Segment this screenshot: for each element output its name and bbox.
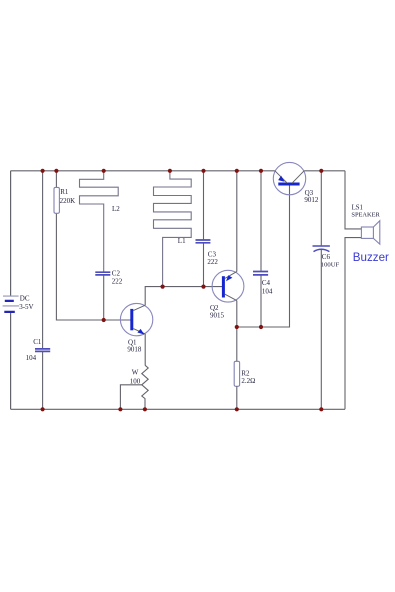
transistor Q1 emitter arrow xyxy=(137,329,144,335)
label C1 104 xyxy=(26,338,42,362)
label C3 222 xyxy=(207,251,218,266)
svg-text:C6: C6 xyxy=(322,253,331,261)
wire C3 branch xyxy=(203,171,205,287)
label Buzzer xyxy=(353,251,389,264)
svg-text:9018: 9018 xyxy=(127,345,141,353)
wire Q1 emitter down xyxy=(144,334,146,365)
potentiometer W zigzag xyxy=(142,365,148,409)
svg-text:LS1: LS1 xyxy=(352,204,363,211)
capacitor C6 xyxy=(313,246,330,252)
svg-text:C4: C4 xyxy=(262,279,271,287)
wire R1 branch and Q1 base wire xyxy=(56,171,130,320)
transistor Q3 base bar xyxy=(278,183,299,186)
transistor Q2 circle xyxy=(212,270,244,302)
transistor Q2 collector diagonal xyxy=(225,294,237,300)
svg-text:W: W xyxy=(132,369,139,377)
wire right border with speaker stubs xyxy=(345,171,361,409)
svg-text:SPEAKER: SPEAKER xyxy=(351,211,380,218)
label L1 xyxy=(178,237,186,245)
inductor L2 xyxy=(80,171,119,272)
svg-text:222: 222 xyxy=(207,258,218,266)
speaker LS1 symbol xyxy=(361,221,379,244)
label C6 100UF xyxy=(321,253,340,268)
transistor Q2 base bar xyxy=(222,276,225,297)
svg-text:100UF: 100UF xyxy=(321,261,340,268)
svg-text:R1: R1 xyxy=(60,188,69,196)
label R2 2.2 xyxy=(241,370,255,386)
junction node dots Q2 collector wire xyxy=(235,325,263,329)
svg-text:9012: 9012 xyxy=(304,196,319,204)
battery BT DC 3-5V xyxy=(3,296,20,312)
svg-text:100: 100 xyxy=(130,377,141,385)
svg-text:220K: 220K xyxy=(60,197,76,205)
transistor Q3 emitter diagonal xyxy=(275,171,287,183)
capacitor C1 xyxy=(35,349,50,352)
wire collector junction to Q3 base xyxy=(237,185,290,327)
resistor R1 xyxy=(54,187,59,213)
junction node dots bottom rail xyxy=(41,407,324,411)
transistor Q2 emitter arrow xyxy=(226,275,232,281)
label DC 3-5V xyxy=(19,295,33,312)
label Q2 9015 xyxy=(210,304,225,320)
transistor Q1 base bar xyxy=(130,309,133,330)
label Q3 9012 xyxy=(304,189,319,204)
label W 100 xyxy=(130,369,141,386)
svg-text:104: 104 xyxy=(26,354,37,362)
svg-text:Buzzer: Buzzer xyxy=(353,251,389,264)
svg-text:Q2: Q2 xyxy=(210,304,219,312)
wire left border xyxy=(10,171,12,409)
label C2 222 xyxy=(112,269,123,285)
svg-text:2.2Ω: 2.2Ω xyxy=(241,377,255,385)
svg-text:C1: C1 xyxy=(33,338,42,346)
wire top rail xyxy=(11,170,345,172)
svg-text:222: 222 xyxy=(112,278,123,286)
svg-text:L2: L2 xyxy=(112,205,120,213)
label L2 xyxy=(112,205,120,213)
inductor L1 xyxy=(154,171,192,287)
wire R2 leads xyxy=(236,327,238,409)
transistor Q3 circle xyxy=(273,162,305,194)
svg-text:C2: C2 xyxy=(112,269,121,277)
junction node dot Q1 base xyxy=(102,318,106,322)
wire bottom rail xyxy=(11,408,345,410)
svg-text:L1: L1 xyxy=(178,237,186,245)
label Q1 9018 xyxy=(127,338,141,353)
resistor R2 xyxy=(234,361,239,386)
capacitor C3 xyxy=(196,240,211,243)
transistor Q3 collector diagonal xyxy=(292,171,304,183)
label C4 104 xyxy=(262,279,273,295)
wire C1 branch xyxy=(42,171,44,409)
junction node dots collector wire xyxy=(161,285,206,289)
transistor Q1 emitter diagonal xyxy=(133,329,145,334)
transistor Q1 circle xyxy=(120,303,152,335)
junction node dots top rail xyxy=(41,169,324,173)
wire C4 branch xyxy=(260,171,262,327)
capacitor C2 xyxy=(95,272,110,275)
capacitor C4 xyxy=(253,272,268,275)
wire Q2 emitter to rail xyxy=(236,171,238,272)
svg-text:104: 104 xyxy=(262,287,273,295)
wire W wiper tap xyxy=(120,385,141,410)
wire C2 bottom xyxy=(103,276,105,321)
svg-text:9015: 9015 xyxy=(210,312,225,320)
label R1 220K xyxy=(60,188,76,205)
label LS1 SPEAKER xyxy=(351,204,380,218)
svg-text:3-5V: 3-5V xyxy=(19,303,33,311)
wire C6 branch xyxy=(320,171,322,409)
transistor Q3 emitter arrow xyxy=(278,176,284,182)
transistor Q1 collector diagonal xyxy=(133,305,145,310)
wire Q1 collector to Q2 base xyxy=(145,287,222,306)
transistor Q2 emitter diagonal xyxy=(225,272,237,279)
wire Q2 collector down xyxy=(236,301,238,327)
svg-text:DC: DC xyxy=(20,295,30,303)
